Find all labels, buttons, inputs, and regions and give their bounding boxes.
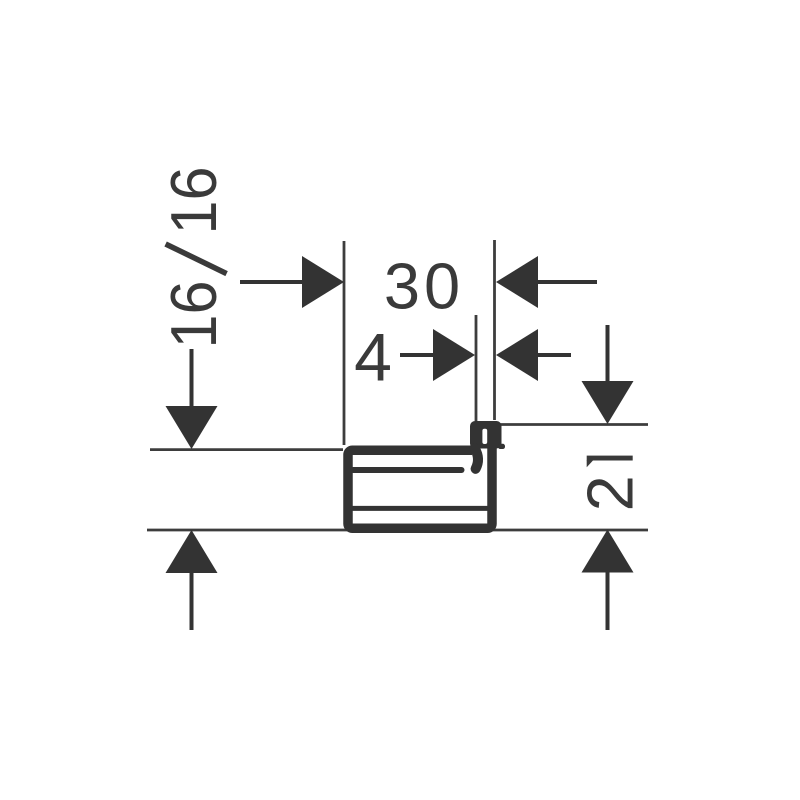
node A1: 30-dim left arrow [240,256,344,308]
node profile shelf top [353,467,462,473]
node label 16/16 slash [166,244,227,274]
svg-text:2: 2 [574,475,647,511]
node A2: 30-dim right arrow [496,256,597,308]
svg-text:4: 4 [354,320,392,396]
node A4: 4-dim right arrow [496,329,571,381]
node profile hook [470,421,502,449]
node A6: 16-dim up arrow [166,530,218,630]
svg-text:30: 30 [384,250,464,323]
wire: left top reference line [150,448,343,451]
node A7: 21-dim down arrow [582,325,634,424]
node A5: 16-dim down arrow [166,349,218,449]
node A8: 21-dim up arrow [582,530,634,631]
node profile curl [475,449,478,469]
wire: extension line x=344 [343,241,346,445]
node profile hook nub [498,444,505,449]
wire: bottom reference line [147,529,648,532]
svg-text:16: 16 [157,167,230,235]
wire: right top reference line [499,423,648,426]
wire: extension line x=494.5 [493,240,496,420]
node A3: 4-dim left arrow [400,329,475,381]
svg-text:16: 16 [157,281,230,349]
node profile shelf bottom [350,506,490,511]
node profile body [348,447,492,528]
wire: extension line x=476 [475,315,478,421]
